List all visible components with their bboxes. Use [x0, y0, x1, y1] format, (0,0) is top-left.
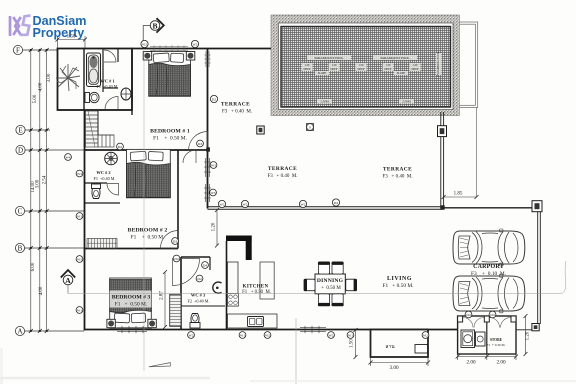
kitchen west counter [228, 262, 239, 306]
dim 1.20 vertical below C wall [212, 208, 220, 248]
svg-text:SWIMMING POOL: SWIMMING POOL [436, 51, 440, 76]
svg-text:BEDROOM # 3: BEDROOM # 3 [112, 295, 151, 301]
svg-text:F3 + 0.40 M.: F3 + 0.40 M. [382, 175, 412, 180]
door arc bedroom1 down [183, 150, 196, 163]
svg-text:DEEP: DEEP [331, 68, 338, 71]
wall: carport west double from pool [441, 112, 444, 208]
car 1 carport [453, 229, 525, 266]
marker circles on top wall [141, 40, 199, 47]
marker circles corridor wall [197, 95, 218, 196]
marker circles WC3 door [173, 255, 208, 282]
pool walkway white gap [279, 23, 454, 110]
svg-text:WC # 1: WC # 1 [100, 79, 114, 84]
svg-text:DINNING: DINNING [317, 278, 344, 284]
window: top wall bedroom1 [150, 45, 188, 51]
svg-text:W2: W2 [301, 202, 306, 206]
column: carport NW pier [438, 126, 447, 137]
svg-text:KITCHEN: KITCHEN [243, 285, 269, 290]
column: carport NE pier [532, 201, 542, 212]
dining table [309, 274, 345, 294]
text label terrace right [382, 167, 412, 180]
text label WC1 [96, 79, 118, 89]
svg-text:Property: Property [33, 26, 85, 40]
svg-text:F1 + 0.50 M.: F1 + 0.50 M. [131, 235, 165, 241]
wall: kitchen-living black poche L [226, 236, 252, 261]
window: bottom wall left [117, 326, 147, 333]
wall: WC3 south y=306 [181, 305, 225, 307]
dining chair left [304, 279, 315, 292]
svg-text:W3: W3 [211, 163, 216, 167]
svg-text:E: E [18, 127, 22, 135]
wall: WC1 inner partition x=84 [83, 49, 85, 111]
svg-text:PARAMOUNT POOL: PARAMOUNT POOL [381, 56, 410, 60]
marker circles terrace south wall [218, 199, 339, 208]
logo DanSiam Property [10, 14, 86, 40]
svg-text:TERRACE: TERRACE [221, 102, 250, 108]
bed bedroom3 [110, 278, 152, 328]
section arrow A [61, 270, 75, 293]
svg-text:TERRACE: TERRACE [268, 166, 297, 172]
svg-text:WC # 2: WC # 2 [96, 170, 110, 175]
svg-text:W2: W2 [220, 202, 225, 206]
svg-text:D3: D3 [173, 239, 177, 243]
flower stand bedroom3 left [107, 319, 115, 327]
text label bedroom1 [150, 129, 190, 142]
dim 1.85 carport top [442, 108, 479, 200]
svg-text:S: S [309, 125, 311, 129]
pool label white knockouts [302, 53, 442, 104]
svg-text:D: D [18, 147, 23, 155]
svg-text:LIVING: LIVING [387, 276, 412, 282]
text label kitchen [242, 285, 271, 296]
marker circle pool south pier [307, 124, 314, 131]
text label store [487, 338, 506, 347]
wall: bedroom2 east x=178 [177, 150, 179, 249]
text label terrace top-left [221, 102, 252, 115]
section line B vertical [143, 49, 145, 371]
wall: left exterior x=84.5 [84, 110, 86, 331]
marker circles store arcs [465, 311, 496, 318]
svg-text:2.87: 2.87 [160, 291, 165, 300]
svg-text:3.00: 3.00 [36, 179, 41, 188]
svg-text:1.20: 1.20 [526, 331, 531, 340]
section line below dining [295, 318, 297, 384]
svg-text:W4: W4 [66, 155, 71, 159]
svg-text:1.50: 1.50 [386, 64, 391, 67]
text label bedroom2 [128, 228, 168, 241]
dimension tick dots left [30, 49, 48, 332]
dining chair right [346, 279, 357, 292]
svg-text:D4: D4 [174, 257, 178, 261]
wall: WC1 inner partition y=88 [103, 87, 118, 89]
wardrobe shelf [170, 294, 181, 326]
svg-text:D4: D4 [197, 277, 201, 281]
dim sala left 1.50 [350, 328, 358, 359]
svg-text:1.50M: 1.50M [320, 100, 329, 104]
wall: D-line bedroom1 bottom [85, 149, 208, 151]
car 2 carport [453, 274, 525, 313]
svg-text:4.00: 4.00 [39, 82, 44, 91]
svg-text:BEDROOM # 1: BEDROOM # 1 [150, 129, 190, 135]
marker circles bedroom2 door and window [65, 143, 179, 244]
svg-text:PARAMOUNT POOL: PARAMOUNT POOL [315, 56, 344, 60]
store washing machine [461, 330, 475, 348]
svg-text:F2 +0.40 M.: F2 +0.40 M. [187, 299, 209, 304]
svg-text:DEEP: DEEP [358, 68, 365, 71]
grid bubble F [13, 45, 57, 54]
section arrowhead bottom [149, 363, 171, 367]
left dimension labels [31, 73, 52, 295]
svg-text:A: A [17, 328, 22, 336]
window: corridor west wall upper [204, 158, 211, 177]
wall: WC2 partition y=183 [85, 182, 108, 184]
door arc WC1 inner [104, 50, 116, 62]
door arc WC1 [105, 97, 118, 110]
svg-text:B: B [18, 245, 23, 253]
svg-text:1.20: 1.20 [305, 64, 310, 67]
svg-text:W2: W2 [243, 202, 248, 206]
svg-text:F: F [16, 47, 20, 55]
scan streak bottom left [0, 377, 210, 380]
svg-text:SLOPE: SLOPE [397, 72, 406, 75]
toilet WC3 [190, 314, 200, 329]
pool label PARAMOUNT POOL left [315, 56, 410, 60]
basin WC2 [105, 152, 118, 165]
grid bubble D [16, 145, 84, 154]
svg-text:F3 + 0.40 M.: F3 + 0.40 M. [222, 110, 252, 115]
grid bubble C [15, 206, 84, 215]
svg-text:W1: W1 [77, 214, 82, 218]
swimming pool water grid [281, 27, 451, 108]
svg-text:DEEP: DEEP [412, 68, 419, 71]
pool equipment outline rect (behind pool) [352, 22, 478, 108]
section arrow B [143, 18, 164, 48]
svg-text:+ 0.50 M: + 0.50 M [321, 286, 341, 291]
kitchen stove 4 burners [228, 294, 239, 307]
svg-text:W2: W2 [189, 333, 194, 337]
grid bubble E [16, 125, 50, 134]
svg-text:STORE: STORE [490, 338, 503, 342]
wall: bottom exterior A-line [85, 329, 458, 331]
store block outline [458, 316, 516, 354]
wall: kitchen west x=226.5 [226, 241, 228, 330]
text label WC3 [187, 293, 209, 304]
svg-text:F1 + 0.50 M.: F1 + 0.50 M. [242, 290, 271, 295]
dim store right 1.20 [524, 314, 531, 356]
svg-text:F1 +0.40 M.: F1 +0.40 M. [96, 84, 118, 89]
svg-text:W1: W1 [240, 333, 245, 337]
store sink unit [476, 332, 486, 346]
wall: carport south edge [457, 329, 539, 331]
svg-text:2.54: 2.54 [43, 175, 48, 184]
door arc WC2 [107, 184, 119, 196]
svg-text:F3 + 0.40 M.: F3 + 0.40 M. [267, 174, 297, 179]
dim 2.87 vertical [160, 270, 168, 329]
svg-text:D4: D4 [466, 313, 470, 317]
svg-text:1.50: 1.50 [67, 35, 76, 40]
door arc corridor-terrace up [189, 132, 208, 151]
door arc bedroom2 [161, 231, 179, 249]
wall: carport east x=539 [538, 211, 541, 324]
svg-text:W3: W3 [77, 257, 82, 261]
toilet WC2 [92, 184, 101, 199]
svg-text:W1: W1 [348, 333, 353, 337]
svg-text:6.00: 6.00 [31, 262, 36, 271]
sala outbuilding [371, 330, 429, 358]
svg-text:SLOPE: SLOPE [318, 72, 327, 75]
svg-text:1.50: 1.50 [350, 339, 355, 348]
dim sala bottom 3.00 [369, 357, 431, 371]
svg-text:F1 + 0.30 M.: F1 + 0.30 M. [487, 343, 506, 347]
carport label [471, 264, 506, 277]
svg-text:DEEP: DEEP [304, 68, 311, 71]
svg-text:3.00: 3.00 [47, 73, 52, 82]
window: corridor west wall lower [204, 184, 211, 202]
kitchen island counter [260, 262, 274, 299]
text label living [382, 276, 413, 289]
wall junction node carport NW [440, 205, 444, 209]
pool depth markers [304, 64, 419, 75]
bathtub WC1 [87, 53, 101, 87]
toilet WC1 [85, 92, 99, 102]
wall: WC3 east x=210 partial [209, 257, 211, 270]
svg-text:W3: W3 [211, 191, 216, 195]
flower stand bedroom1 left [143, 52, 152, 61]
wall: WC1 block outline [58, 49, 133, 111]
svg-text:F1 + 0.50 M.: F1 + 0.50 M. [382, 283, 413, 289]
svg-text:W1: W1 [77, 308, 82, 312]
grid bubble A [15, 326, 84, 335]
oven circle G symbol [213, 282, 222, 293]
wall: B-line bedroom2 bottom [85, 248, 179, 250]
svg-text:3.00: 3.00 [389, 365, 398, 371]
flower stand bedroom1 right [186, 52, 195, 61]
svg-text:CARPORT: CARPORT [473, 264, 504, 270]
svg-text:W2: W2 [423, 333, 428, 337]
flower stand bedroom3 right [148, 319, 156, 327]
column: terrace mid pier [257, 126, 264, 134]
window: bottom wall dining [300, 326, 326, 333]
left vertical dimension lines [31, 50, 47, 331]
section line A-A horizontal [68, 261, 566, 293]
svg-text:W3: W3 [77, 172, 82, 176]
scan streak bottom right [250, 380, 576, 382]
svg-text:C: C [18, 208, 23, 216]
svg-text:D3: D3 [198, 142, 202, 146]
svg-text:1.20: 1.20 [413, 64, 418, 67]
svg-text:F1 +0.40 M.: F1 +0.40 M. [93, 176, 115, 181]
wall: WC2 south y=203 [85, 202, 121, 204]
wall: WC1 inner partition x=103 [102, 49, 104, 93]
svg-text:4.00: 4.00 [39, 286, 44, 295]
bed bedroom2 [127, 149, 171, 197]
svg-text:DEEP: DEEP [385, 68, 392, 71]
door arc WC3 [173, 259, 200, 286]
scan smudge left edge [0, 348, 3, 384]
grid bubble B [15, 243, 84, 252]
pool bottom labels [320, 100, 411, 104]
wall: top exterior F-line [132, 48, 271, 50]
svg-text:W2: W2 [265, 333, 270, 337]
basin WC1 [121, 88, 131, 100]
svg-text:2.00: 2.00 [496, 360, 505, 366]
svg-text:1.85: 1.85 [454, 192, 463, 197]
wall: bedroom1 east / corridor west x=207.5 [207, 49, 209, 209]
svg-text:D4: D4 [203, 263, 207, 267]
plant in WC1 garden court [56, 64, 80, 91]
text label terrace center [267, 166, 297, 179]
svg-text:D4: D4 [490, 313, 494, 317]
bed bedroom1 [149, 52, 191, 97]
wall: carport north y=208 [443, 207, 533, 209]
wall: WC1 basin partition x=118 [117, 49, 119, 63]
svg-text:1.20: 1.20 [212, 222, 217, 231]
store door arcs [463, 318, 484, 328]
svg-text:TERRACE: TERRACE [383, 167, 412, 173]
svg-text:D2: D2 [212, 97, 216, 101]
svg-text:W2: W2 [142, 42, 147, 46]
text label bedroom3 [110, 291, 152, 308]
svg-text:D2: D2 [118, 145, 122, 149]
column: carport SE pier [532, 324, 539, 331]
pool deck stippled border [271, 15, 459, 116]
svg-text:B: B [152, 21, 157, 30]
wall: bedroom1 west partition x=132 [131, 49, 133, 116]
kitchen south counter with sink [228, 314, 278, 328]
window: bedroom1 east wall [204, 51, 210, 67]
wall: stair hall east x=98 [97, 111, 99, 135]
svg-text:W2: W2 [329, 333, 334, 337]
svg-text:5.00: 5.00 [33, 94, 38, 103]
marker circles bottom wall [188, 332, 429, 339]
svg-text:1.50: 1.50 [332, 64, 337, 67]
dim 1.50 above WC1 block [56, 35, 88, 49]
window sill hatch bedroom2 south [87, 239, 117, 249]
svg-text:F1 + 0.50 M.: F1 + 0.50 M. [115, 302, 147, 308]
door threshold corridor [206, 147, 210, 151]
svg-text:F1 + 0.50 M.: F1 + 0.50 M. [153, 136, 187, 142]
svg-text:D4: D4 [334, 201, 338, 205]
text label WC2 [93, 170, 115, 181]
wall: WC3 top y=257 [181, 256, 210, 258]
svg-text:2.00: 2.00 [466, 360, 475, 366]
svg-text:W2: W2 [193, 42, 198, 46]
wall: terrace south C-line [208, 207, 444, 210]
dining chairs bottom [318, 294, 344, 307]
dim store bottom 2.00 2.00 [456, 354, 518, 366]
svg-text:BEDROOM # 2: BEDROOM # 2 [128, 228, 168, 234]
wall: WC3 block west x=181 [180, 257, 182, 330]
stairs by left wall [86, 111, 115, 147]
svg-text:2.50M: 2.50M [402, 100, 411, 104]
svg-text:ลาน: ลาน [385, 345, 395, 350]
marker circles left wall [76, 170, 83, 313]
svg-text:A: A [65, 276, 71, 285]
svg-text:1.50: 1.50 [359, 64, 364, 67]
dining chairs top [318, 262, 344, 275]
dimension ticks left [29, 48, 49, 333]
